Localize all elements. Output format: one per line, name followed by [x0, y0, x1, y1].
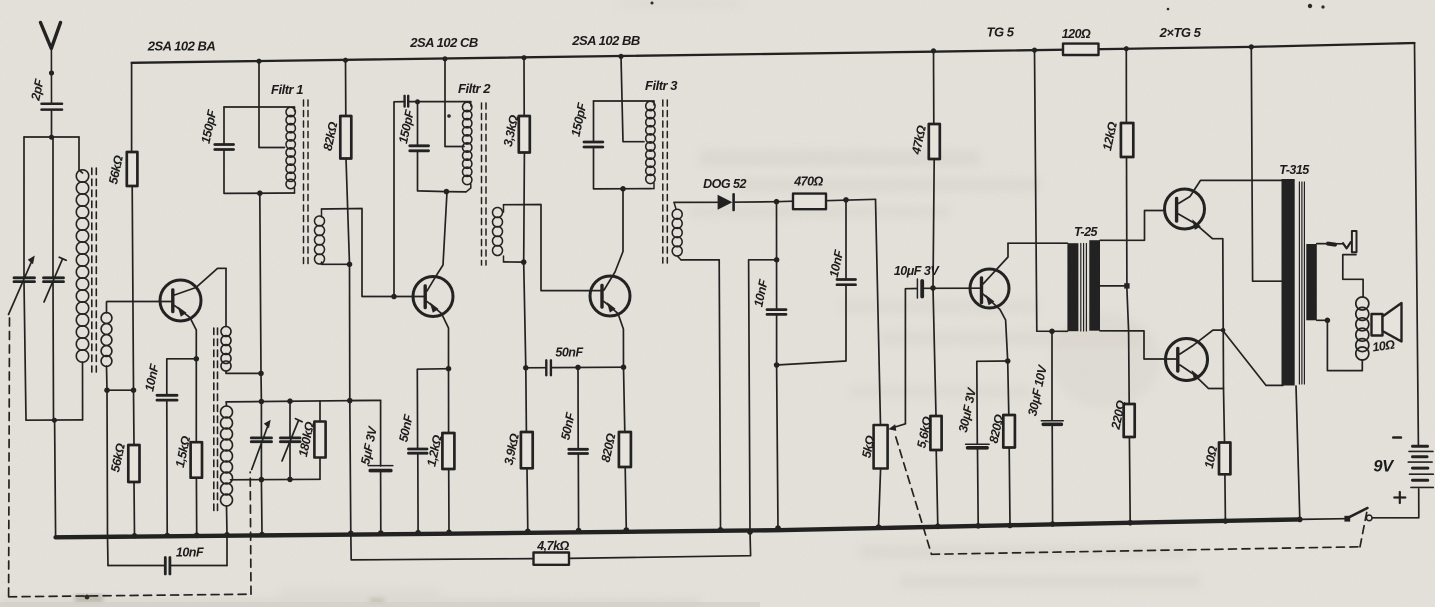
resistor 180k: [314, 422, 325, 458]
wire wiper to 10uF: [905, 289, 916, 424]
wire neutralization Q2: [394, 102, 404, 297]
wire 30uF10V to bus: [1051, 426, 1053, 524]
svg-text:9V: 9V: [1373, 458, 1395, 476]
wire var osc2: [289, 401, 291, 436]
wire 30uF3V to bus: [977, 450, 980, 526]
capacitor 150pF filtr3: [584, 142, 603, 147]
switch contact square: [1344, 516, 1350, 522]
capacitor 10nF Q1 emitter: [157, 395, 177, 400]
wire osc tank bottom: [231, 478, 321, 481]
wire 470 left: [777, 200, 794, 203]
variable capacitor osc 1: [251, 438, 271, 442]
resistor 1.5k: [191, 442, 202, 478]
node antenna stem: [49, 70, 54, 75]
inductor oscillator coil: [221, 406, 233, 506]
inductor oscillator coupling coil: [221, 327, 231, 372]
wire coil bottom lead: [82, 362, 84, 420]
wire 220 top: [1128, 331, 1131, 404]
trimmer arrow osc 2: [282, 421, 299, 462]
resistor 4.7k: [534, 553, 570, 565]
node bus 820 Q4: [1007, 523, 1013, 529]
resistor 820 Q4: [1003, 415, 1015, 448]
node bus 3.9k: [525, 529, 531, 535]
wire osc coil top: [225, 402, 227, 406]
node tank bottom var1: [259, 477, 265, 483]
wire 50nF Q2 to bus: [417, 454, 419, 533]
node crossing mark: [1221, 328, 1226, 333]
node speaker return: [1325, 318, 1331, 324]
resistor 12k: [1121, 123, 1133, 157]
wire var cap2 lower: [52, 282, 55, 420]
wire supply to T25: [1035, 50, 1068, 331]
node divider tap: [131, 387, 137, 393]
wire return to divider: [107, 389, 134, 391]
wire bus corner to R 56k: [131, 63, 133, 152]
wire 10R to bus: [1224, 474, 1227, 521]
node bus filtr2 tap: [442, 56, 447, 61]
wire filtr3 sec top: [674, 201, 718, 203]
node bus 50nF Q3: [576, 528, 582, 534]
wire Q3 emitter down: [624, 367, 625, 432]
transistor Q1 2SA102BA: [160, 268, 226, 330]
node 30uF10V tap: [1049, 329, 1055, 335]
wire 30uF10V branch: [1051, 331, 1053, 420]
inductor filtr2 secondary: [493, 205, 504, 262]
node Q3 emitter: [621, 364, 627, 370]
wire 12k top: [1125, 49, 1127, 123]
node filtr3 bottom: [620, 186, 626, 192]
wire 3.3k line long: [524, 153, 527, 433]
node filtr2 top left: [415, 99, 420, 104]
inductor antenna coil: [76, 170, 88, 362]
node var2 bottom: [52, 418, 57, 423]
wire filtr1 sec bottom: [322, 263, 350, 265]
wire 56k lower to bus: [133, 482, 136, 536]
wire filtr3 left upper: [593, 101, 595, 141]
wire 50nF row right: [552, 366, 624, 368]
wire coil top lead: [79, 137, 83, 173]
wire AVC node down: [107, 390, 108, 565]
svg-text:T-315: T-315: [1279, 163, 1310, 177]
transformer T315 primary bar: [1282, 179, 1295, 386]
wire 82k top lead: [345, 60, 347, 116]
node bus filtr3 tap: [618, 54, 623, 59]
label plus: [1394, 492, 1405, 503]
wire filtr2 bottom right: [446, 191, 466, 193]
wire 220 to bus: [1128, 437, 1131, 523]
svg-text:120Ω: 120Ω: [1062, 27, 1091, 41]
node tank top: [49, 135, 54, 140]
wire 50nF Q3 to bus: [577, 455, 579, 531]
svg-text:DOG 52: DOG 52: [703, 177, 746, 191]
wire 10nF bottom left: [108, 565, 164, 567]
node secondary return: [104, 387, 110, 393]
svg-text:2SA 102 BB: 2SA 102 BB: [571, 33, 640, 48]
wire filtr2 tank top: [409, 101, 471, 103]
wire filtr3 tank top: [594, 100, 655, 102]
wire tank bottom: [26, 419, 83, 421]
resistor 820 Q3: [619, 432, 631, 467]
wire coupling coil return: [226, 371, 261, 373]
wire filtr1 left upper: [223, 107, 225, 144]
wire jack to speaker coil: [1343, 255, 1363, 298]
node bus osc: [259, 532, 265, 538]
capacitor neutralization f2: [405, 96, 409, 107]
wire 820 to bus: [625, 467, 626, 530]
svg-text:10μF 3V: 10μF 3V: [894, 264, 941, 278]
wire 1.2k to bus: [448, 469, 450, 532]
resistor 120R: [1063, 44, 1099, 55]
wire Q4 emitter down: [1008, 361, 1009, 415]
wire var osc1 to bus: [260, 480, 263, 535]
wire 180k top: [319, 401, 321, 422]
inductor filtr3 primary: [646, 101, 655, 189]
wire filtr1 bottom to bus long: [260, 193, 262, 401]
resistor 3.3k: [519, 116, 530, 153]
node emitter bypass: [194, 356, 200, 362]
inductor filtr2 primary: [463, 102, 472, 192]
core filtr2 dashed: [482, 103, 487, 265]
node bus 56k: [132, 533, 138, 539]
wire bus to switch: [1300, 518, 1345, 521]
node bus 120R left: [1032, 48, 1037, 53]
wire 1.5k to bus: [195, 478, 197, 536]
core oscillator dashed: [214, 328, 218, 512]
capacitor 50nF Q3: [569, 449, 588, 453]
wire filtr1 tap feed: [259, 61, 285, 147]
wire 10nF AF lower: [777, 286, 846, 365]
wire 47k top: [933, 51, 935, 124]
wire filtr3 sec bottom: [681, 259, 719, 261]
node osc coil bus: [224, 532, 230, 538]
wire 5uF to bus: [380, 472, 382, 533]
wire mid branch down: [52, 137, 54, 277]
inductor antenna secondary: [101, 313, 112, 367]
node bus 12k: [1124, 46, 1129, 51]
wire T25 sec top to Q5: [1100, 211, 1165, 241]
capacitor 10nF AF: [837, 280, 856, 285]
wire tap down: [1127, 289, 1129, 331]
dashed gang box: [9, 318, 251, 597]
inductor filtr1 secondary: [315, 209, 325, 264]
wire input tank top: [24, 136, 79, 138]
svg-text:50nF: 50nF: [555, 346, 583, 360]
wire jack stub: [1317, 243, 1343, 245]
core ferrite rod dashed: [92, 168, 97, 372]
resistor 3.9k: [521, 432, 533, 468]
wire filtr2 tap feed: [445, 59, 464, 147]
wire filtr2 sec top to Q3 base: [504, 205, 602, 291]
jack sleeve: [1352, 231, 1357, 252]
wire 3.9k to bus: [526, 468, 529, 531]
wire filtr2 left lower: [418, 152, 447, 192]
node tank bottom var2: [287, 477, 293, 483]
node det mid: [774, 257, 780, 263]
capacitor 30uF 3V: [966, 444, 990, 448]
wire 5.6k to bus: [936, 450, 938, 526]
capacitor 2pF: [42, 104, 63, 110]
wire osc coil bottom: [226, 506, 229, 566]
node bus 1.5k: [194, 532, 200, 538]
arrow var cap 1: [9, 260, 33, 315]
resistor 82k: [340, 116, 351, 159]
switch lever: [1347, 508, 1367, 518]
variable capacitor osc 2: [280, 438, 300, 442]
resistor 47k: [929, 124, 940, 159]
node bus 82k line: [348, 531, 354, 537]
wire 5uF branch: [350, 400, 381, 466]
wire 3.3k top lead: [523, 58, 525, 116]
wire 470 to volume pot: [876, 199, 881, 425]
wire 4.7k loop left: [351, 533, 534, 560]
label minus: [1393, 436, 1401, 439]
wire antenna to tank: [51, 110, 53, 137]
wire Q1 collector to coupling coil: [225, 268, 227, 326]
wire Q2 emitter down: [448, 369, 450, 433]
node Q2 base: [391, 294, 397, 300]
wire secondary top to base: [107, 302, 172, 314]
diode DOG52: [718, 194, 734, 210]
wire 10nF bottom right: [171, 565, 227, 567]
svg-text:2SA 102 BA: 2SA 102 BA: [147, 39, 216, 54]
wire T25 sec bottom to Q6 base: [1100, 331, 1176, 359]
node 470 out: [843, 197, 849, 203]
capacitor 150pF filtr1: [215, 145, 234, 150]
inductor filtr1 primary: [286, 107, 295, 193]
core filtr3 dashed: [663, 100, 668, 263]
node tank top var1: [259, 399, 265, 405]
wire T315 sec bottom: [1317, 319, 1328, 321]
wire 10nF AF branch: [845, 200, 847, 279]
wire tank to bus riser: [55, 420, 56, 537]
wire filtr1 sec top to Q2 base: [322, 209, 424, 297]
jack contact: [1343, 242, 1351, 248]
wire divider mid: [132, 186, 133, 390]
wire 10uF to Q4 base: [924, 287, 979, 289]
node Q4 emitter: [1005, 358, 1011, 364]
wire 4.7k loop right: [569, 532, 751, 559]
variable capacitor input 2: [44, 278, 64, 282]
wire Q5 emitter down: [1222, 239, 1225, 389]
svg-text:470Ω: 470Ω: [793, 175, 823, 189]
svg-text:TG 5: TG 5: [987, 25, 1015, 40]
switch contact circle: [1366, 515, 1372, 521]
resistor 220: [1124, 404, 1135, 437]
node bus 10R: [1223, 518, 1229, 524]
wire 180k bottom: [319, 458, 321, 480]
node bus det branch: [747, 529, 753, 535]
node bus centre tap: [1249, 44, 1254, 49]
node filtr2 bottom: [444, 189, 450, 195]
wire diode to node: [734, 201, 777, 204]
transistor Q2 2SA102CB: [413, 192, 453, 369]
wire T315 bottom to bus end: [1296, 386, 1300, 519]
node bus 1.2k: [446, 530, 452, 536]
node Q2 emitter: [446, 366, 452, 372]
inductor speaker coil: [1356, 297, 1369, 360]
node bus 5uF: [378, 530, 384, 536]
transformer T25 primary bar: [1067, 243, 1078, 331]
resistor 1.2k: [442, 433, 454, 469]
node detector: [774, 199, 780, 205]
variable capacitor input 1: [14, 278, 35, 282]
node 50nF row left: [523, 365, 529, 371]
node bus det: [775, 525, 781, 531]
node bus 30uF3V: [975, 523, 981, 529]
wire 47k to base node: [933, 159, 934, 288]
wire emitter to 10nF: [167, 359, 197, 394]
wire filtr3 tap feed: [621, 56, 644, 141]
wire top supply bus: [132, 43, 1415, 63]
node bus 50nF Q2: [415, 530, 421, 536]
wire sec return to bus: [719, 260, 720, 530]
node bus 30uF10V: [1050, 521, 1056, 527]
core T315 lines: [1299, 182, 1304, 384]
wire ground bus: [56, 519, 1300, 537]
arrow var osc 1: [252, 425, 269, 470]
node bus 10nF: [164, 533, 170, 539]
wire Q4 collector to T25: [1008, 242, 1067, 244]
node bus 820: [623, 527, 629, 533]
wire 82k line long: [346, 159, 351, 534]
resistor 56k upper: [127, 152, 138, 186]
wire 50nF vertical branch: [577, 367, 579, 448]
wire Q1 emitter down: [195, 330, 197, 442]
capacitor 10nF bottom: [165, 558, 170, 575]
wire pot to bus: [879, 469, 881, 528]
wire filtr1 left lower: [224, 151, 295, 194]
capacitor 50nF horizontal: [546, 360, 551, 375]
wire 50nF coupling row: [526, 367, 545, 369]
transformer T315 secondary bar: [1306, 244, 1317, 320]
capacitor 10uF 3V: [917, 279, 922, 298]
node 50nF row mid: [575, 365, 581, 371]
svg-text:Filtr 1: Filtr 1: [271, 82, 303, 97]
core filtr1 dashed: [304, 100, 309, 265]
inductor filtr3 secondary: [672, 202, 682, 260]
svg-text:4,7kΩ: 4,7kΩ: [536, 539, 569, 553]
node filtr1 bottom: [257, 190, 263, 196]
wire speaker coil return: [1327, 320, 1362, 370]
wire var cap1 lower: [24, 282, 26, 420]
node coupling return: [258, 371, 264, 377]
wire filtr2 left upper: [417, 102, 419, 145]
wire secondary bottom: [106, 366, 109, 390]
wire 820 Q4 to bus: [1008, 448, 1011, 526]
transistor Q5 TG5 upper: [1165, 180, 1282, 238]
trimmer arrow var cap 2: [44, 259, 63, 302]
wire var osc1: [260, 402, 262, 437]
wire base node to 5.6k: [933, 288, 936, 416]
wire battery top: [1415, 43, 1419, 445]
resistor 470: [793, 194, 826, 210]
node AF takeoff: [774, 362, 780, 368]
capacitor 150pF filtr2: [410, 146, 429, 151]
wire 12k to tap node: [1126, 157, 1128, 283]
wire 10nF det lower: [777, 316, 778, 529]
capacitor 5uF 3V: [368, 466, 393, 471]
wire T25 tap: [1100, 285, 1124, 287]
capacitor 50nF Q2: [409, 449, 428, 453]
battery 9V: [1408, 446, 1433, 487]
wire divider to 56k lower: [133, 390, 136, 445]
transistor Q4 TG5: [970, 243, 1009, 361]
wiper arrow 5k: [894, 424, 906, 428]
potentiometer 5k: [874, 425, 888, 469]
node Q4 base: [930, 285, 936, 291]
wire emitter to 30uF3V: [977, 361, 1008, 444]
svg-text:Filtr 2: Filtr 2: [458, 81, 491, 96]
svg-text:T-25: T-25: [1074, 225, 1099, 239]
speaker: [1372, 303, 1402, 342]
wire battery to switch: [1372, 489, 1419, 518]
resistor 10R: [1219, 443, 1230, 475]
node 3.3k line sec: [521, 259, 527, 265]
capacitor 10nF detector: [767, 310, 786, 315]
svg-text:Filtr 3: Filtr 3: [645, 78, 678, 93]
node bus 5.6k: [935, 523, 941, 529]
wire centre tap: [1251, 47, 1281, 281]
wire filtr2 sec bottom: [504, 261, 524, 263]
wire 470 right: [826, 199, 876, 200]
wire emitters to 10R: [1224, 389, 1225, 443]
dashed switch link: [896, 437, 1368, 554]
svg-text:2SA 102 CB: 2SA 102 CB: [409, 35, 478, 50]
wire osc tank top: [226, 400, 380, 402]
node bus filtr1 tap: [256, 59, 261, 64]
resistor 56k lower: [128, 445, 139, 482]
transistor Q6 TG5 lower: [1166, 330, 1284, 388]
node bus 220: [1127, 520, 1133, 526]
node bus pot: [876, 524, 882, 530]
core T25 lines: [1081, 244, 1087, 332]
wire det mid branch: [749, 260, 777, 532]
transformer T25 secondary bar: [1089, 240, 1100, 331]
capacitor 30uF 10V: [1041, 421, 1063, 425]
node bus sec return: [718, 527, 724, 533]
node tap square: [1124, 283, 1129, 288]
node bus 3.3k: [521, 55, 526, 60]
transistor Q3 2SA102BB: [590, 189, 630, 367]
wire emitter to 50nF: [417, 369, 448, 448]
resistor 5.6k: [930, 416, 941, 450]
node bus end: [1297, 517, 1303, 523]
svg-text:2×TG 5: 2×TG 5: [1159, 25, 1202, 40]
node tank top var2: [287, 398, 293, 404]
node bus TG5: [931, 48, 936, 53]
wire 10nF to bus: [166, 402, 168, 536]
wire left branch down: [23, 137, 25, 277]
wire filtr1 tank top: [224, 106, 295, 108]
svg-text:10nF: 10nF: [176, 546, 204, 560]
node 82k line sec: [347, 262, 353, 268]
node tank top 82k line: [347, 398, 353, 404]
wire filtr3 left lower: [594, 148, 652, 189]
antenna: [41, 23, 61, 49]
wire detector down: [776, 202, 778, 309]
node bus 82k: [343, 58, 348, 63]
